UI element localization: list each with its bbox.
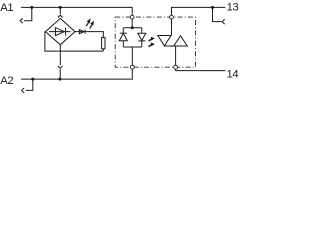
svg-text:A2: A2 [0,75,13,87]
svg-text:A1: A1 [0,2,13,14]
svg-text:13: 13 [227,2,239,14]
svg-text:14: 14 [227,68,239,80]
